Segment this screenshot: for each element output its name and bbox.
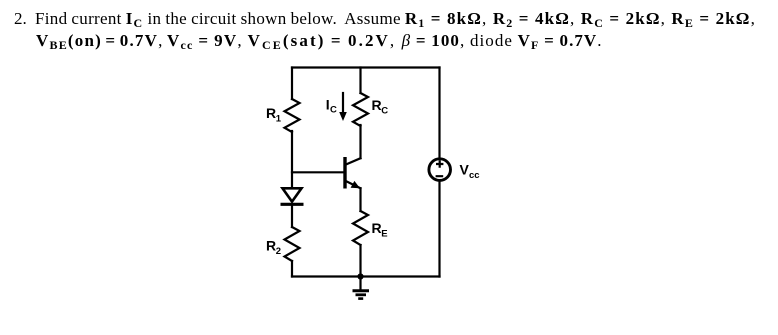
svg-text:C: C xyxy=(330,105,337,116)
svg-text:cc: cc xyxy=(469,170,480,181)
svg-text:R: R xyxy=(266,238,276,254)
svg-text:2: 2 xyxy=(276,246,281,257)
svg-text:R: R xyxy=(372,97,382,113)
svg-text:R: R xyxy=(372,220,382,236)
svg-text:C: C xyxy=(381,106,388,117)
svg-text:R: R xyxy=(266,105,276,121)
svg-text:E: E xyxy=(381,229,387,240)
svg-text:V: V xyxy=(460,162,470,178)
svg-text:1: 1 xyxy=(276,114,282,125)
